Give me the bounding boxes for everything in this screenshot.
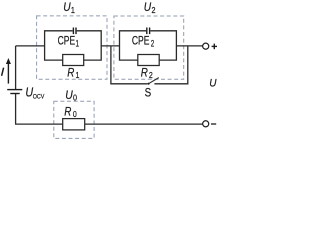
svg-text:R: R xyxy=(67,67,74,80)
svg-text:2: 2 xyxy=(149,70,153,80)
svg-text:R: R xyxy=(141,67,148,80)
svg-text:U: U xyxy=(144,2,151,15)
svg-text:1: 1 xyxy=(76,38,79,48)
svg-text:2: 2 xyxy=(151,5,155,15)
svg-text:CPE: CPE xyxy=(132,34,150,48)
svg-text:S: S xyxy=(145,86,152,99)
svg-text:0: 0 xyxy=(73,110,77,120)
svg-text:0: 0 xyxy=(73,93,77,103)
svg-text:OCV: OCV xyxy=(33,94,45,100)
svg-text:U: U xyxy=(209,77,216,90)
svg-text:R: R xyxy=(64,106,71,119)
svg-text:2: 2 xyxy=(151,38,154,48)
svg-text:CPE: CPE xyxy=(58,34,76,48)
svg-text:1: 1 xyxy=(76,70,80,80)
svg-text:U: U xyxy=(63,2,70,15)
svg-text:1: 1 xyxy=(71,5,75,15)
